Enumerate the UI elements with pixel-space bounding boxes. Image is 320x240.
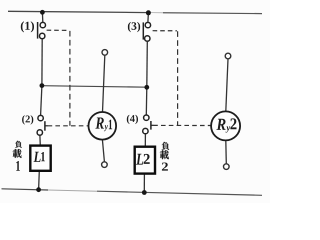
dashed link contact (3) horizontal (153, 30, 177, 32)
label L1 (34, 152, 45, 162)
contact (3) upper circle (145, 22, 150, 27)
terminal Ry1 bottom (102, 162, 108, 168)
dashed link contact (2) to coil Ry1 (48, 125, 89, 127)
wire load L1 to bottom bus (38, 171, 41, 190)
terminal Ry2 top (225, 53, 231, 59)
label 負 for L2 (162, 142, 170, 150)
junction node A (40, 10, 45, 15)
contact (2) upper circle (38, 115, 43, 120)
wire bottom bus faint span (48, 190, 97, 191)
label 載 for L1 (13, 149, 22, 158)
label (4) (127, 115, 138, 124)
label (3) (128, 22, 140, 32)
wire bottom bus right span (97, 191, 262, 195)
wire coil Ry1 bottom to terminal (102, 140, 104, 162)
contact (4) blade tick (151, 124, 154, 126)
terminal Ry1 top (102, 50, 108, 56)
contact (2) blade bar (44, 121, 46, 131)
label Ry2 (216, 118, 236, 132)
contact (4) blade bar (150, 121, 152, 130)
junction node B (146, 10, 151, 15)
junction node F at bottom bus (142, 190, 147, 195)
label 負 for L1 (15, 141, 22, 148)
label digit 2 under load chars (162, 163, 168, 171)
contact (4) upper circle (144, 115, 149, 120)
wire contact (3) to node D (146, 42, 149, 87)
label 載 for L2 (160, 150, 169, 159)
contact (1) upper circle (40, 22, 45, 27)
wire coil Ry2 bottom to terminal (225, 140, 228, 163)
label (1) (21, 21, 34, 32)
load L2 box (135, 147, 155, 174)
contact (2) lower circle (37, 130, 42, 135)
wire top bus left span (8, 11, 151, 12)
contact (1) lower circle (40, 33, 45, 38)
contact (3) lower circle (145, 36, 150, 41)
junction node C (40, 83, 45, 88)
contact (1) blade bar (37, 22, 39, 39)
dashed link Ry2 vertical (177, 31, 179, 125)
label L2 (136, 154, 150, 165)
wire node C to contact (2) (41, 86, 42, 115)
wire contact (4) to load L2 (144, 134, 146, 147)
wire load L2 to bottom bus (143, 174, 145, 193)
wire top bus faint span (151, 12, 164, 14)
dashed link contact (4) to coil Ry2 (153, 124, 211, 126)
relay coil Ry2 (211, 111, 240, 140)
dashed link Ry1 vertical (69, 31, 71, 126)
wire node A to contact (1) (41, 12, 43, 22)
wire contact (2) to load L1 (39, 136, 41, 146)
junction node E at bottom bus (36, 187, 41, 192)
label Ry1 (95, 118, 112, 132)
junction node D (144, 85, 149, 90)
contact (2) blade tick (45, 125, 48, 127)
wire node B to contact (3) (147, 13, 150, 22)
contact (3) blade bar (142, 22, 144, 39)
relay coil Ry1 (89, 112, 117, 140)
wire bottom bus left span (2, 189, 49, 190)
wire terminal to coil Ry1 top (103, 55, 105, 112)
wire top bus right span (163, 12, 262, 15)
wire terminal to coil Ry2 top (226, 59, 228, 112)
load L1 box (30, 146, 50, 171)
label (2) (22, 115, 33, 124)
contact (4) lower circle (143, 128, 148, 133)
wire contact (1) to node C (41, 39, 43, 85)
wire node C to node D tie (42, 86, 147, 88)
label digit 1 under load chars (16, 161, 20, 171)
wire node D to contact (4) (145, 87, 148, 114)
terminal Ry2 bottom (224, 164, 230, 170)
dashed link contact (1) horizontal (47, 29, 70, 31)
